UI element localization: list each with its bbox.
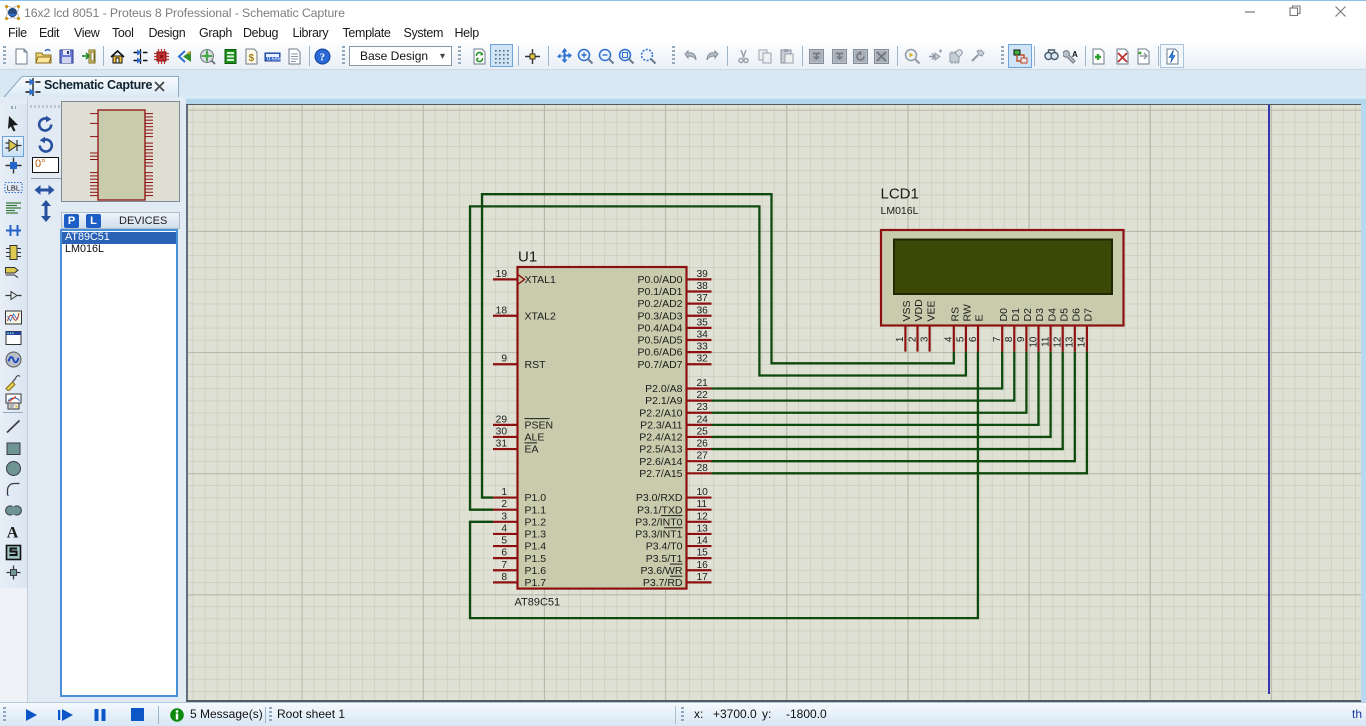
toolbar: redraw display — [471, 48, 488, 65]
svg-text:P2.7/A15: P2.7/A15 — [639, 468, 682, 480]
pin 12 P3.2/INT0 stub — [687, 521, 712, 523]
svg-text:7: 7 — [992, 336, 1003, 342]
svg-text:37: 37 — [697, 293, 709, 304]
LCD pin 4 RS stub — [953, 326, 955, 352]
toolbar: zoom out — [598, 48, 615, 65]
pin 17 P3.7/RD stub — [687, 581, 712, 583]
svg-text:16: 16 — [697, 560, 709, 571]
left tool: 2d box — [4, 439, 23, 458]
svg-text:14: 14 — [697, 536, 709, 547]
svg-text:23: 23 — [697, 402, 709, 413]
pin 31 EA stub — [493, 448, 518, 450]
LCD pin 1 VSS stub — [904, 326, 906, 352]
toolbar: edit properties — [948, 48, 965, 65]
toolbar: remove sheet — [1114, 48, 1131, 65]
pin 32 P0.7/AD7 stub — [687, 363, 712, 365]
svg-text:RST: RST — [525, 359, 547, 371]
toolbar: redo — [704, 48, 721, 65]
left tool: graph mode — [4, 308, 23, 327]
svg-text:P2.4/A12: P2.4/A12 — [639, 432, 682, 444]
pin 10 P3.0/RXD stub — [687, 496, 712, 498]
pin 23 P2.2/A10 stub — [687, 412, 712, 414]
wire net P1.2 to LCD E — [470, 352, 978, 618]
svg-text:P3.6/WR: P3.6/WR — [640, 565, 682, 577]
pin 9 RST stub — [493, 363, 518, 365]
pin 15 P3.5/T1 stub — [687, 557, 712, 559]
toolbar: block delete — [873, 48, 890, 65]
left tool: 2d text — [4, 522, 23, 541]
svg-text:1: 1 — [895, 336, 906, 342]
pin 24 P2.3/A11 stub — [687, 424, 712, 426]
pin 28 P2.7/A15 stub — [687, 472, 712, 474]
svg-text:9: 9 — [501, 354, 507, 365]
svg-text:10: 10 — [1028, 336, 1039, 348]
svg-text:3: 3 — [501, 511, 507, 522]
toolbar: save design — [58, 48, 75, 65]
overline INT0 — [661, 515, 683, 517]
svg-text:12: 12 — [1053, 336, 1064, 348]
LCD pin 2 VDD stub — [916, 326, 918, 352]
LCD pin 6 E stub — [977, 326, 979, 352]
toolbar: copy — [757, 48, 774, 65]
svg-text:24: 24 — [697, 414, 709, 425]
svg-text:P2.6/A14: P2.6/A14 — [639, 456, 682, 468]
v flip — [39, 200, 53, 222]
left tool: device pin mode — [4, 286, 23, 305]
proteus app icon — [4, 4, 21, 21]
svg-text:28: 28 — [697, 463, 709, 474]
panel grip dots — [30, 105, 60, 108]
angle box — [32, 157, 59, 173]
toolbar: search — [1043, 48, 1060, 65]
svg-text:EA: EA — [525, 444, 539, 456]
svg-text:18: 18 — [496, 305, 508, 316]
rotate clockwise — [36, 115, 55, 134]
left tool: terminal mode — [4, 264, 23, 283]
svg-text:P0.4/AD4: P0.4/AD4 — [638, 322, 683, 334]
svg-text:13: 13 — [1065, 336, 1076, 348]
svg-text:27: 27 — [697, 451, 709, 462]
toolbar: goto sheet — [1135, 48, 1152, 65]
canvas top dark line — [186, 104, 1361, 106]
toolbar: zoom all — [640, 48, 657, 65]
pin 13 P3.3/INT1 stub — [687, 533, 712, 535]
left tool: popup window mode — [4, 329, 23, 348]
svg-text:P2.0/A8: P2.0/A8 — [645, 383, 683, 395]
LCD pin 13 D6 stub — [1074, 326, 1076, 352]
svg-text:VEE: VEE — [925, 300, 937, 321]
svg-text:6: 6 — [968, 336, 979, 342]
svg-text:P2.2/A10: P2.2/A10 — [639, 407, 682, 419]
toolbar: hammer tool — [968, 48, 985, 65]
svg-text:D0: D0 — [998, 308, 1010, 322]
svg-text:LBL: LBL — [7, 183, 20, 192]
svg-text:1: 1 — [501, 487, 507, 498]
wire net P2.7 to LCD D7 — [712, 352, 1087, 474]
left tool: instrument mode — [4, 392, 23, 411]
svg-text:P1.3: P1.3 — [525, 529, 547, 541]
left tool: text script mode — [4, 199, 23, 218]
wire net P2.5 to LCD D5 — [712, 352, 1063, 449]
svg-text:P2.1/A9: P2.1/A9 — [645, 395, 683, 407]
left tool: wire label mode — [4, 178, 23, 197]
pin 33 P0.6/AD6 stub — [687, 351, 712, 353]
svg-text:15: 15 — [697, 548, 709, 559]
svg-text:13: 13 — [697, 523, 709, 534]
preview window — [61, 101, 180, 202]
svg-text:22: 22 — [697, 390, 709, 401]
toolbar: block copy — [808, 48, 825, 65]
svg-text:P0.5/AD5: P0.5/AD5 — [638, 335, 683, 347]
side panel — [27, 97, 186, 702]
overline RD — [670, 575, 683, 577]
svg-text:19: 19 — [496, 269, 508, 280]
LCD screen — [894, 240, 1112, 295]
toolbar: undo — [682, 48, 699, 65]
svg-text:12: 12 — [697, 511, 709, 522]
svg-text:36: 36 — [697, 305, 709, 316]
toolbar: electrical rule check — [1160, 44, 1184, 68]
svg-text:P1.1: P1.1 — [525, 504, 547, 516]
toolbar: schematic capture module — [132, 48, 149, 65]
wire net P2.0 to LCD D0 — [712, 352, 1003, 389]
svg-text:P1.5: P1.5 — [525, 553, 547, 565]
svg-text:D6: D6 — [1071, 308, 1083, 322]
svg-text:P0.3/AD3: P0.3/AD3 — [638, 310, 683, 322]
toolbar: design explorer — [177, 48, 194, 65]
toolbar: wire autorouter (active) — [1008, 44, 1032, 68]
separator — [31, 178, 61, 179]
svg-text:P3.1/TXD: P3.1/TXD — [637, 504, 683, 516]
left tool: 2d symbol — [4, 543, 23, 562]
LCD1 LM016L body — [881, 230, 1124, 326]
LCD pin 8 D1 stub — [1013, 326, 1015, 352]
svg-text:21: 21 — [697, 378, 709, 389]
toolbar: block move — [831, 48, 848, 65]
svg-text:14: 14 — [1077, 336, 1088, 348]
pin 11 P3.1/TXD stub — [687, 509, 712, 511]
left tool: subcircuit mode — [4, 243, 23, 262]
svg-text:P3.0/RXD: P3.0/RXD — [636, 492, 683, 504]
left tool: 2d arc — [4, 480, 23, 499]
left tool: junction dot mode — [4, 156, 23, 175]
toolbar: new sheet — [1090, 48, 1107, 65]
pin 18 XTAL2 stub — [493, 315, 518, 317]
left tool: component mode — [4, 136, 23, 155]
svg-text:35: 35 — [697, 317, 709, 328]
svg-text:4: 4 — [944, 336, 955, 342]
svg-text:D1: D1 — [1010, 308, 1022, 322]
canvas bottom dark line — [186, 700, 1361, 702]
pin 29 PSEN stub — [493, 424, 518, 426]
svg-text:LM016L: LM016L — [881, 205, 919, 217]
svg-text:P1.2: P1.2 — [525, 516, 547, 528]
pin 16 P3.6/WR stub — [687, 569, 712, 571]
svg-text:LCD1: LCD1 — [881, 186, 919, 203]
svg-text:25: 25 — [697, 426, 709, 437]
window buttons — [1243, 5, 1349, 19]
toolbar: electra — [264, 48, 281, 65]
svg-text:9: 9 — [1016, 336, 1027, 342]
sheet border — [1268, 104, 1270, 694]
pin 14 P3.4/T0 stub — [687, 545, 712, 547]
svg-text:38: 38 — [697, 281, 709, 292]
svg-text:?: ? — [319, 51, 325, 63]
svg-text:D3: D3 — [1034, 308, 1046, 322]
toolbar: goto component — [927, 48, 944, 65]
svg-text:29: 29 — [496, 414, 508, 425]
h mirror — [34, 183, 55, 197]
pin 2 P1.1 stub — [493, 509, 518, 511]
wire net P2.1 to LCD D1 — [712, 352, 1015, 401]
menu bar — [0, 23, 1366, 43]
toolbar: new design — [13, 48, 30, 65]
svg-text:P3.5/T1: P3.5/T1 — [646, 553, 683, 565]
step — [58, 708, 74, 722]
left tool: selection mode — [4, 114, 23, 133]
LCD pin 9 D2 stub — [1025, 326, 1027, 352]
svg-text:0.5mm: 0.5mm — [267, 56, 281, 62]
toolbar: paste — [779, 48, 796, 65]
pin 19 XTAL1 stub — [493, 278, 518, 280]
toolbar: bill of materials — [222, 48, 239, 65]
toolbar: help — [314, 48, 331, 65]
svg-text:P0.0/AD0: P0.0/AD0 — [638, 274, 683, 286]
svg-text:5: 5 — [501, 536, 507, 547]
svg-text:2: 2 — [907, 336, 918, 342]
pin 22 P2.1/A9 stub — [687, 400, 712, 402]
LCD pin 5 RW stub — [965, 326, 967, 352]
wire net P2.2 to LCD D2 — [712, 352, 1027, 413]
toolbar: zoom to object — [904, 48, 921, 65]
LCD pin 14 D7 stub — [1086, 326, 1088, 352]
pin 6 P1.5 stub — [493, 557, 518, 559]
svg-text:17: 17 — [697, 572, 709, 583]
svg-text:2: 2 — [501, 499, 507, 510]
toolbar: pan — [556, 48, 573, 65]
toolbar: open design — [35, 48, 52, 65]
svg-text:D4: D4 — [1046, 308, 1058, 322]
left tool: 2d line — [4, 417, 23, 436]
toolbar: home page — [109, 48, 126, 65]
tab bar — [0, 70, 1366, 104]
svg-text:11: 11 — [1040, 336, 1051, 347]
LCD pin 3 VEE stub — [928, 326, 930, 352]
toolbar: cut — [735, 48, 752, 65]
svg-text:P2.5/A13: P2.5/A13 — [639, 444, 682, 456]
svg-text:11: 11 — [697, 499, 708, 510]
left vertical toolbar — [0, 104, 27, 588]
toolbar: sheet selector dropdown — [349, 46, 452, 66]
status bar — [0, 702, 1366, 726]
LCD pin 11 D4 stub — [1049, 326, 1051, 352]
svg-text:D2: D2 — [1022, 308, 1034, 322]
toolbar: design cost — [243, 48, 260, 65]
pin 8 P1.7 stub — [493, 581, 518, 583]
svg-text:D7: D7 — [1083, 308, 1095, 322]
svg-text:P3.7/RD: P3.7/RD — [643, 577, 683, 589]
svg-text:26: 26 — [697, 439, 709, 450]
canvas — [186, 104, 1361, 702]
pin 37 P0.2/AD2 stub — [687, 303, 712, 305]
pause — [94, 708, 106, 722]
svg-text:E: E — [974, 314, 986, 321]
toolbar: zoom region — [618, 48, 635, 65]
svg-text:XTAL2: XTAL2 — [525, 310, 556, 322]
pin 30 ALE stub — [493, 436, 518, 438]
play — [24, 708, 38, 722]
svg-text:8: 8 — [501, 572, 507, 583]
svg-text:34: 34 — [697, 330, 709, 341]
toolbar: grid toggle (pressed) — [490, 44, 513, 67]
svg-text:7: 7 — [501, 560, 507, 571]
toolbar: origin — [524, 48, 541, 65]
pin 34 P0.5/AD5 stub — [687, 339, 712, 341]
LCD pin 10 D3 stub — [1037, 326, 1039, 352]
devices list — [60, 229, 178, 697]
svg-text:5: 5 — [956, 336, 967, 342]
pin 7 P1.6 stub — [493, 569, 518, 571]
svg-text:6: 6 — [501, 548, 507, 559]
pin 39 P0.0/AD0 stub — [687, 278, 712, 280]
svg-text:RS: RS — [950, 307, 962, 322]
pin 35 P0.4/AD4 stub — [687, 327, 712, 329]
clock input marker XTAL1 — [519, 275, 525, 284]
preview: AT89C51 package outline — [63, 103, 182, 202]
svg-text:39: 39 — [697, 269, 709, 280]
left tool: voltage probe mode — [4, 372, 23, 391]
pin 5 P1.4 stub — [493, 545, 518, 547]
svg-text:AT89C51: AT89C51 — [515, 597, 561, 609]
svg-text:8: 8 — [1004, 336, 1015, 342]
LCD pin 7 D0 stub — [1001, 326, 1003, 352]
svg-text:P1.0: P1.0 — [525, 492, 547, 504]
svg-text:A: A — [1072, 50, 1078, 59]
devices header — [61, 212, 180, 229]
svg-text:3: 3 — [919, 336, 930, 342]
svg-text:ALE: ALE — [525, 432, 545, 444]
wire net P2.6 to LCD D6 — [712, 352, 1075, 462]
svg-text:30: 30 — [496, 426, 508, 437]
svg-text:U1: U1 — [518, 249, 537, 266]
tab icon — [24, 77, 42, 97]
svg-text:P3.3/INT1: P3.3/INT1 — [635, 529, 682, 541]
overline INT1 — [664, 527, 682, 529]
overline PSEN — [525, 418, 550, 420]
toolbar: zoom in — [577, 48, 594, 65]
svg-text:33: 33 — [697, 342, 709, 353]
svg-text:$: $ — [248, 53, 254, 64]
left tool: 2d closed path — [4, 501, 23, 520]
svg-text:31: 31 — [496, 439, 508, 450]
svg-text:RW: RW — [962, 304, 974, 321]
pin 1 P1.0 stub — [493, 496, 518, 498]
left tool: bus mode — [4, 221, 23, 240]
svg-text:32: 32 — [697, 354, 709, 365]
svg-text:P2.3/A11: P2.3/A11 — [640, 419, 683, 431]
wire net P1.0 to LCD RS — [482, 194, 954, 497]
toolbar: import — [80, 48, 97, 65]
svg-text:P3.2/INT0: P3.2/INT0 — [635, 516, 682, 528]
wire net P2.3 to LCD D3 — [712, 352, 1039, 425]
pin 4 P1.3 stub — [493, 533, 518, 535]
stop — [131, 708, 144, 721]
svg-text:A: A — [7, 524, 19, 541]
active tab — [0, 73, 200, 104]
pin 3 P1.2 stub — [493, 521, 518, 523]
svg-text:VSS: VSS — [901, 300, 913, 321]
overline WR — [670, 563, 683, 565]
svg-text:10: 10 — [697, 487, 709, 498]
LCD pin 12 D5 stub — [1062, 326, 1064, 352]
pin 25 P2.4/A12 stub — [687, 436, 712, 438]
op: U1 AT89C51 microcontroller body — [518, 267, 687, 589]
pin 26 P2.5/A13 stub — [687, 448, 712, 450]
svg-text:P0.2/AD2: P0.2/AD2 — [638, 298, 683, 310]
toolbar: release notes — [286, 48, 303, 65]
svg-text:VDD: VDD — [913, 299, 925, 322]
svg-text:PSEN: PSEN — [525, 419, 554, 431]
band under tab bar, left of canvas — [0, 97, 186, 104]
left tool: 2d circle — [4, 459, 23, 478]
toolbar: property assignment — [1063, 48, 1080, 65]
pin 36 P0.3/AD3 stub — [687, 315, 712, 317]
wire net P1.1 to LCD RW — [470, 206, 966, 509]
rotate anticlockwise — [36, 136, 55, 155]
svg-text:P1.6: P1.6 — [525, 565, 547, 577]
info icon — [170, 708, 184, 722]
svg-text:P0.7/AD7: P0.7/AD7 — [638, 359, 683, 371]
wire net P2.4 to LCD D4 — [712, 352, 1051, 437]
svg-text:P1.4: P1.4 — [525, 541, 547, 553]
pin 27 P2.6/A14 stub — [687, 460, 712, 462]
window top accent line — [0, 0, 1366, 1]
left tool: selection (pressed box) — [2, 136, 24, 157]
overline EA — [525, 442, 538, 444]
title bar — [0, 1, 1366, 23]
left tool: 2d marker — [4, 563, 23, 582]
toolbar: PCB layout module — [153, 48, 170, 65]
toolbar: block rotate — [852, 48, 869, 65]
toolbar: 3d viewer — [199, 48, 216, 65]
svg-text:P0.1/AD1: P0.1/AD1 — [638, 286, 683, 298]
pin 21 P2.0/A8 stub — [687, 387, 712, 389]
pin 38 P0.1/AD1 stub — [687, 290, 712, 292]
svg-text:P1.7: P1.7 — [525, 577, 547, 589]
svg-text:P0.6/AD6: P0.6/AD6 — [638, 347, 683, 359]
svg-text:D5: D5 — [1058, 308, 1070, 322]
left tool: generator mode — [4, 350, 23, 369]
toolbar — [0, 43, 1366, 70]
svg-text:XTAL1: XTAL1 — [525, 274, 556, 286]
window right border strip — [1361, 104, 1366, 702]
svg-text:P3.4/T0: P3.4/T0 — [646, 541, 683, 553]
svg-text:4: 4 — [501, 523, 507, 534]
